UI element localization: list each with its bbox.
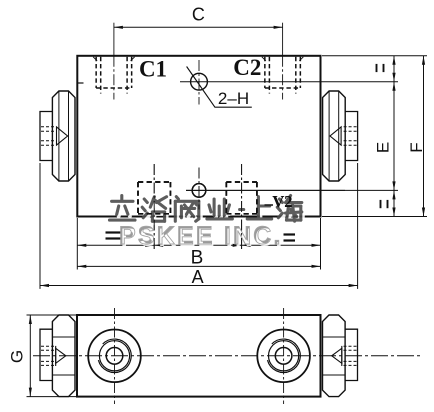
svg-text:PSKEE INC.: PSKEE INC. [119, 222, 283, 250]
svg-text:F: F [407, 142, 426, 152]
svg-text:G: G [8, 350, 27, 363]
svg-text:V2: V2 [272, 192, 292, 211]
svg-text:C: C [192, 5, 205, 25]
svg-text:A: A [192, 267, 204, 287]
svg-text:C2: C2 [233, 55, 261, 80]
svg-text:2–H: 2–H [218, 89, 249, 108]
svg-text:C1: C1 [139, 57, 167, 82]
svg-text:E: E [374, 142, 393, 153]
